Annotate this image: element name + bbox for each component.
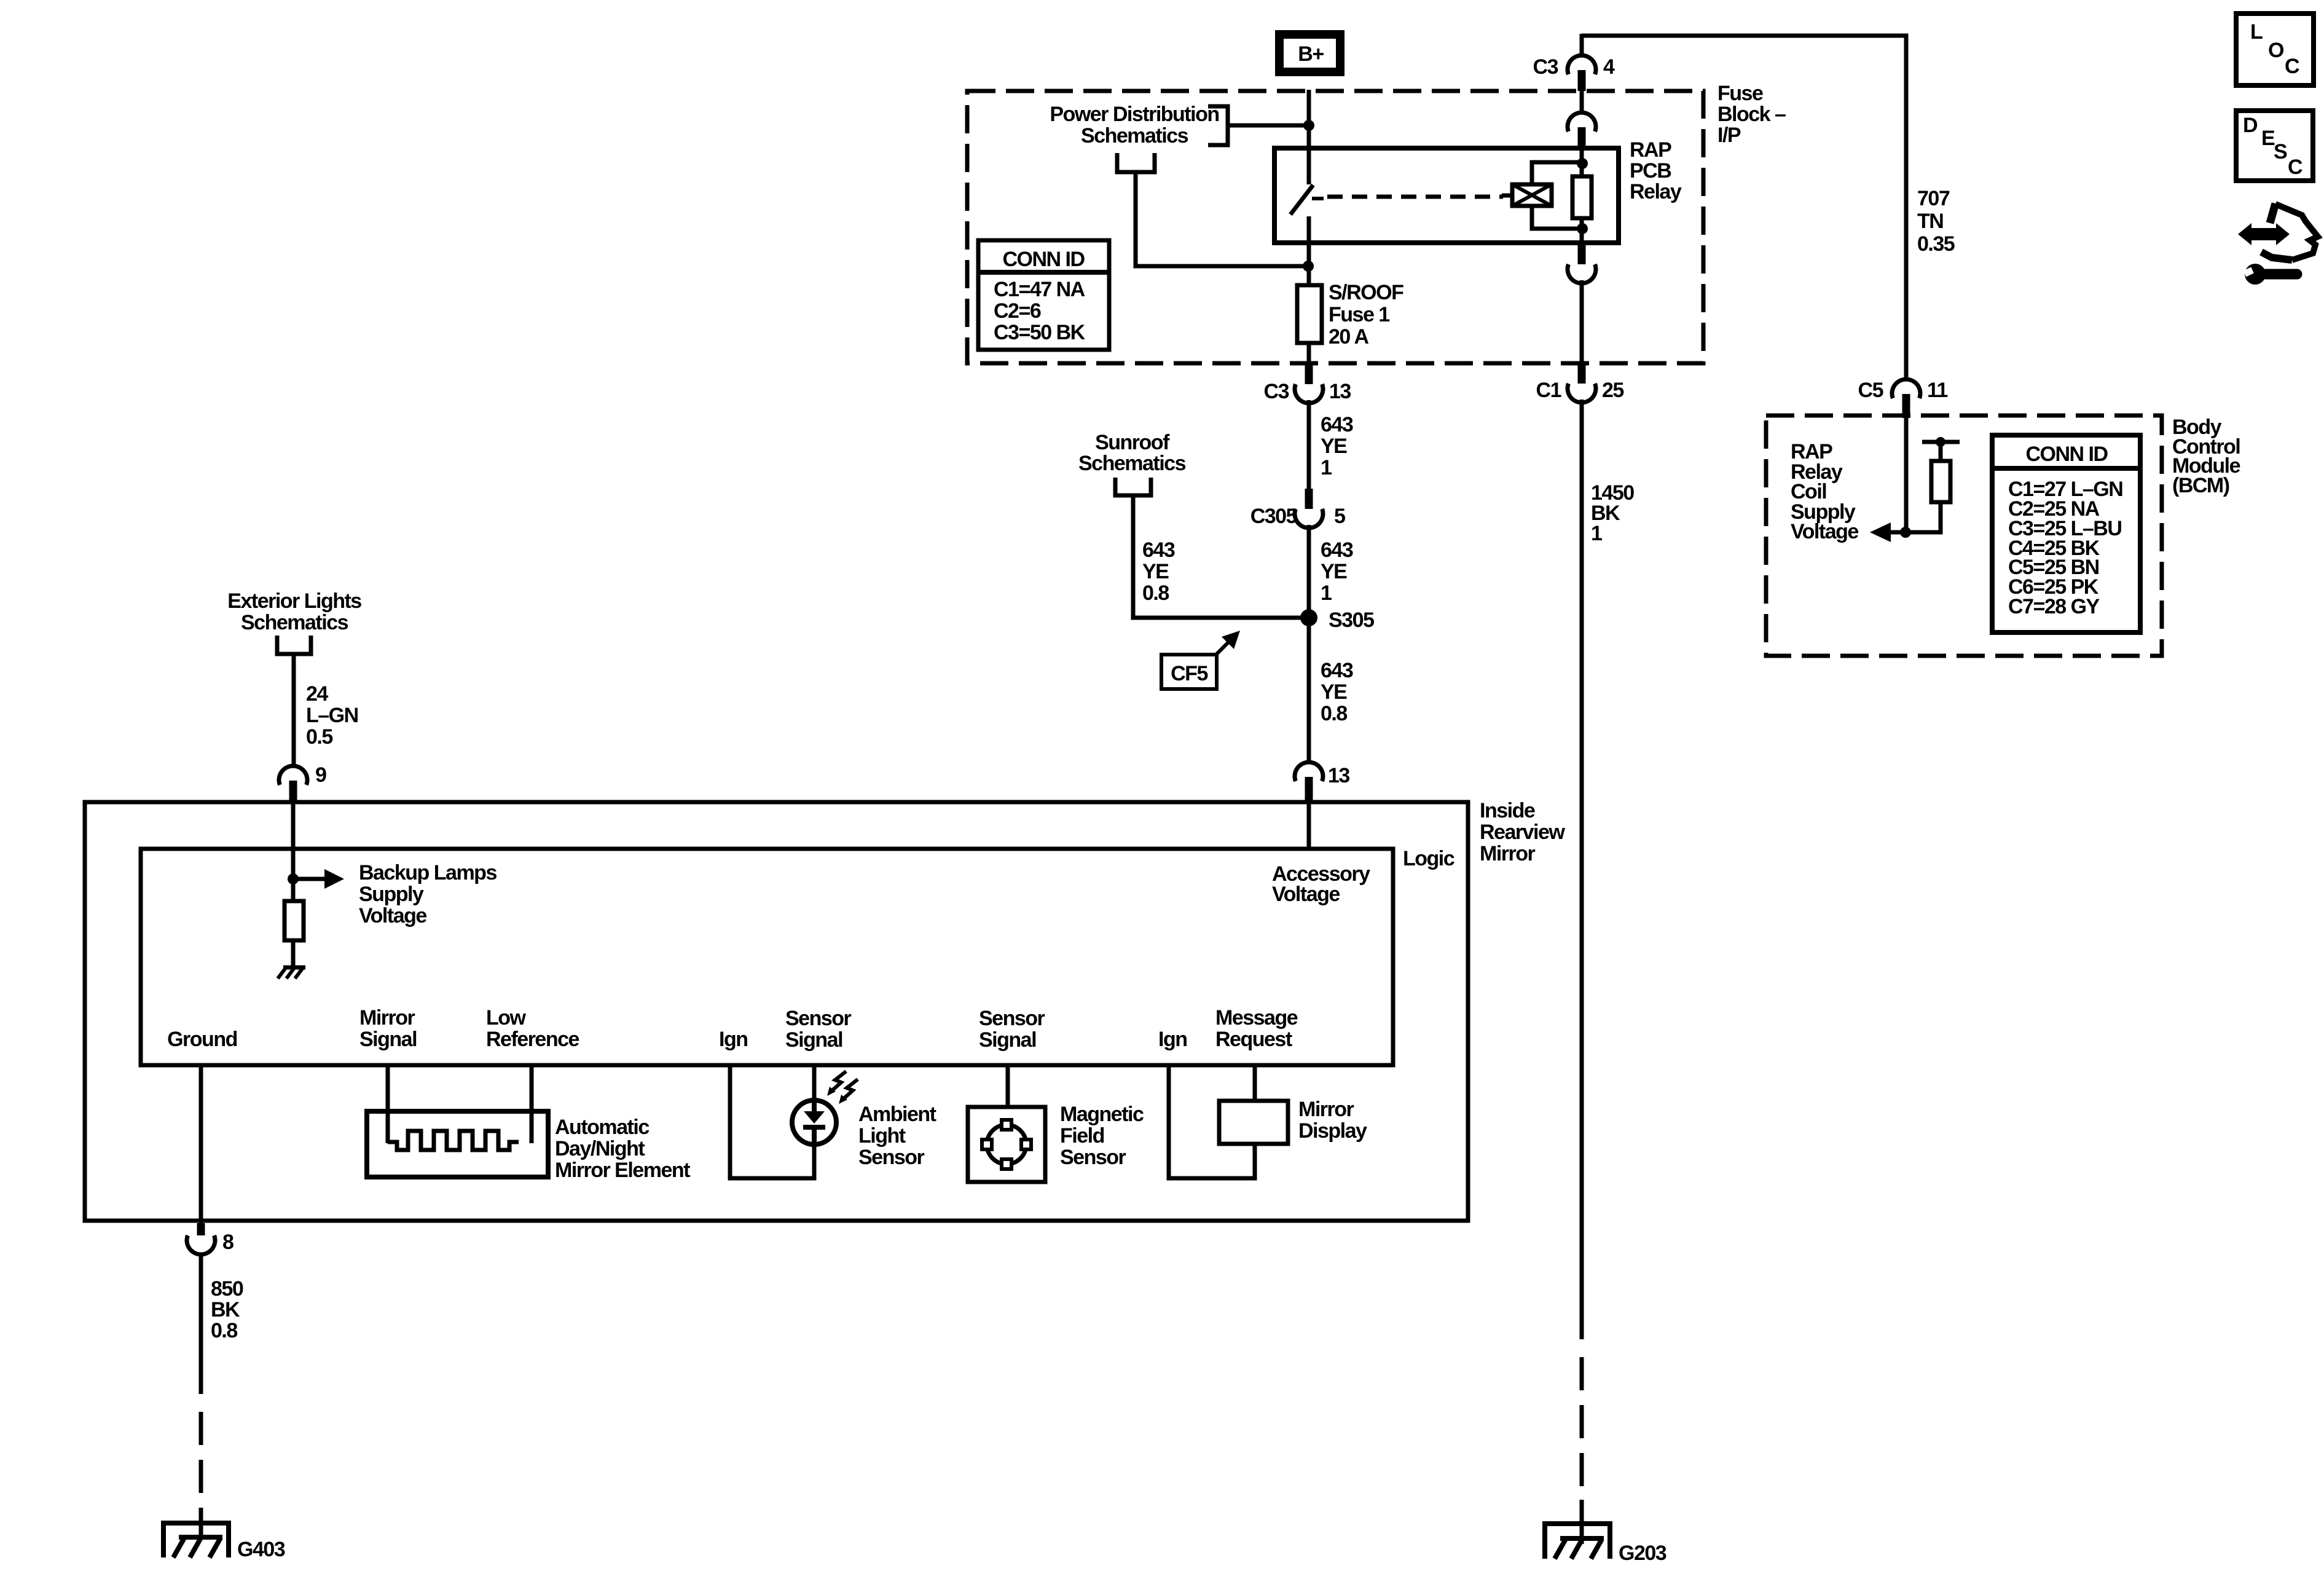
svg-text:0.35: 0.35 <box>1917 232 1955 256</box>
label RAP PCB Relay <box>1630 138 1682 203</box>
connector pin 9 <box>279 766 307 802</box>
svg-text:Mirror Element: Mirror Element <box>555 1159 690 1182</box>
wire relay right branch <box>1580 148 1584 243</box>
label Mirror Signal <box>359 1006 417 1051</box>
svg-text:Supply: Supply <box>359 883 424 906</box>
svg-text:20 A: 20 A <box>1329 325 1369 348</box>
connector C5 pin 11 <box>1892 379 1920 418</box>
resistor in BCM <box>1931 461 1950 502</box>
label Magnetic Field Sensor <box>1060 1103 1144 1169</box>
wire message request pin <box>1253 1065 1257 1101</box>
wire 1450 BK 1 <box>1580 400 1584 1544</box>
wire B+ to relay switch <box>1307 90 1311 149</box>
label 643 YE 1 middle <box>1321 538 1353 605</box>
svg-text:Request: Request <box>1215 1028 1292 1051</box>
svg-text:Automatic: Automatic <box>555 1116 649 1139</box>
svg-text:Field: Field <box>1060 1124 1104 1148</box>
svg-text:0.5: 0.5 <box>306 725 332 749</box>
svg-text:C305: C305 <box>1250 505 1297 528</box>
svg-text:C3: C3 <box>1533 55 1558 79</box>
svg-text:YE: YE <box>1321 435 1347 458</box>
wire mirror signal pin <box>386 1065 390 1143</box>
svg-text:CF5: CF5 <box>1171 662 1207 685</box>
junction dot above fuse <box>1303 261 1314 272</box>
svg-text:0.8: 0.8 <box>211 1319 237 1342</box>
DESC reference box <box>2236 111 2313 181</box>
svg-text:Magnetic: Magnetic <box>1060 1103 1144 1126</box>
label 850 BK 0.8 <box>211 1277 243 1342</box>
label 1450 BK 1 <box>1591 481 1634 545</box>
wire Ign 1 loop <box>730 1065 814 1178</box>
svg-text:Sensor: Sensor <box>785 1007 852 1030</box>
svg-text:Voltage: Voltage <box>1272 883 1340 906</box>
wire sensor signal 1 pin <box>812 1065 817 1101</box>
svg-text:C3=50 BK: C3=50 BK <box>994 321 1086 344</box>
ground G403 <box>161 1523 231 1557</box>
relay control dashed line <box>1327 195 1503 199</box>
svg-text:CONN ID: CONN ID <box>1002 248 1085 271</box>
RAP PCB relay box <box>1274 148 1619 243</box>
svg-text:Inside: Inside <box>1480 799 1535 822</box>
label S/ROOF Fuse 1 20 A <box>1329 281 1403 348</box>
svg-text:Schematics: Schematics <box>1078 452 1186 475</box>
svg-text:C7=28 GY: C7=28 GY <box>2008 595 2100 618</box>
label 643 YE 0.8 lower <box>1321 659 1353 725</box>
wire Ign 2 loop <box>1169 1065 1255 1178</box>
connector pin 8 <box>187 1223 215 1254</box>
svg-text:Sunroof: Sunroof <box>1095 431 1170 454</box>
svg-text:Message: Message <box>1215 1006 1298 1030</box>
fuse block I/P dashed box <box>967 91 1703 363</box>
svg-text:C: C <box>2285 55 2299 78</box>
label Sensor Signal 2 <box>979 1007 1045 1052</box>
mirror display <box>1219 1101 1288 1144</box>
svg-text:643: 643 <box>1321 413 1353 436</box>
svg-text:0.8: 0.8 <box>1142 581 1169 605</box>
label Backup Lamps Supply Voltage <box>359 861 497 927</box>
wire sensor signal 2 pin <box>1006 1065 1010 1107</box>
label C1 25 <box>1536 379 1624 402</box>
svg-text:CONN ID: CONN ID <box>2025 443 2108 466</box>
wire BCM pin 11 internal <box>1904 418 1909 532</box>
CONN ID table fuse block <box>978 240 1109 350</box>
wire coil top loop <box>1532 162 1580 186</box>
automatic day/night mirror element <box>367 1111 548 1177</box>
svg-text:643: 643 <box>1321 538 1353 562</box>
ground G203 <box>1542 1500 1612 1559</box>
wire resistor to supply node <box>1874 502 1941 532</box>
wire top feed to BCM <box>1582 36 1906 380</box>
svg-text:RAP: RAP <box>1630 138 1671 162</box>
svg-text:(BCM): (BCM) <box>2172 474 2229 497</box>
CONN ID table BCM <box>1992 435 2140 632</box>
svg-text:Voltage: Voltage <box>1791 520 1858 543</box>
svg-text:643: 643 <box>1321 659 1353 682</box>
CF5 callout box with arrow <box>1161 631 1240 689</box>
magnetic field sensor <box>968 1107 1045 1182</box>
svg-text:Ground: Ground <box>167 1028 237 1051</box>
service icon double arrow <box>2238 223 2290 245</box>
svg-text:11: 11 <box>1927 379 1948 402</box>
svg-text:S: S <box>2274 140 2287 163</box>
connector relay lower pin <box>1568 243 1596 365</box>
off-page pointer bracket (power distribution) <box>1117 153 1155 172</box>
light arrows into sensor <box>827 1071 858 1104</box>
svg-text:YE: YE <box>1321 680 1347 704</box>
svg-text:707: 707 <box>1917 187 1950 210</box>
relay coil <box>1502 184 1552 206</box>
svg-text:G203: G203 <box>1619 1542 1666 1565</box>
off-page pointer bracket (exterior lights) <box>277 636 311 654</box>
svg-text:Ign: Ign <box>1158 1028 1187 1051</box>
off-page pointer bracket (sunroof) <box>1115 478 1151 495</box>
svg-text:5: 5 <box>1334 505 1345 528</box>
label 707 TN 0.35 <box>1917 187 1955 256</box>
svg-text:Signal: Signal <box>359 1028 417 1051</box>
svg-text:Sensor: Sensor <box>979 1007 1045 1030</box>
resistor in relay <box>1572 176 1592 218</box>
svg-text:Mirror: Mirror <box>1480 842 1536 865</box>
svg-text:643: 643 <box>1142 538 1175 562</box>
svg-text:BK: BK <box>211 1298 240 1321</box>
wire pointer stem to fuse node <box>1136 174 1306 266</box>
svg-text:S305: S305 <box>1329 608 1374 632</box>
svg-text:0.8: 0.8 <box>1321 702 1347 725</box>
inside rearview mirror box <box>85 802 1468 1221</box>
connector C3 pin 4 <box>1568 34 1596 91</box>
connector C1 pin 25 <box>1568 365 1596 403</box>
svg-text:PCB: PCB <box>1630 159 1671 183</box>
svg-text:13: 13 <box>1328 764 1349 787</box>
wire bracket to B+ wire <box>1228 124 1309 128</box>
connector pin 13 inside mirror <box>1295 762 1323 802</box>
svg-text:Light: Light <box>858 1124 906 1148</box>
label Sunroof Schematics <box>1078 431 1186 475</box>
svg-text:B+: B+ <box>1298 42 1324 66</box>
wire backup lamps feed <box>291 802 296 879</box>
connector C3 pin 13 <box>1295 363 1323 403</box>
svg-text:YE: YE <box>1321 560 1347 583</box>
svg-text:Mirror: Mirror <box>359 1006 415 1030</box>
svg-text:Mirror: Mirror <box>1298 1098 1354 1121</box>
junction dot backup lamps <box>288 873 299 884</box>
svg-text:9: 9 <box>315 763 326 787</box>
label C3 13 <box>1264 380 1351 403</box>
svg-text:1: 1 <box>1321 581 1332 605</box>
wire low reference pin <box>530 1065 534 1143</box>
label Sensor Signal 1 <box>785 1007 852 1052</box>
svg-text:13: 13 <box>1329 380 1351 403</box>
svg-text:C2=6: C2=6 <box>994 299 1041 323</box>
wire 643 YE 0.8 lower <box>1307 618 1311 762</box>
svg-text:24: 24 <box>306 682 328 706</box>
svg-text:Reference: Reference <box>486 1028 579 1051</box>
junction dot on B+ wire <box>1303 120 1314 131</box>
service icon wrench <box>2244 264 2297 285</box>
svg-text:25: 25 <box>1602 379 1623 402</box>
wire 643 YE 1 middle <box>1307 525 1311 618</box>
svg-text:C: C <box>2288 156 2302 179</box>
junction dot coil top <box>1577 158 1588 169</box>
resistor backup lamps <box>285 879 304 940</box>
bracket for Power Distribution tag <box>1208 106 1228 145</box>
label Inside Rearview Mirror <box>1480 799 1565 865</box>
wire coil bottom loop <box>1532 205 1580 229</box>
svg-text:Sensor: Sensor <box>1060 1146 1126 1169</box>
LOC reference box <box>2236 14 2314 85</box>
svg-text:4: 4 <box>1603 55 1615 79</box>
wire 643 YE 1 upper <box>1307 400 1311 489</box>
label Body Control Module (BCM) <box>2172 415 2240 497</box>
arrow RAP relay coil supply voltage <box>1870 522 1891 542</box>
label C5 11 <box>1858 379 1948 402</box>
wire 24 L-GN 0.5 <box>292 656 296 766</box>
svg-text:I/P: I/P <box>1717 124 1741 147</box>
arrow backup lamps <box>293 869 344 889</box>
svg-text:Ign: Ign <box>719 1028 747 1051</box>
svg-text:Ambient: Ambient <box>858 1103 936 1126</box>
svg-text:L–GN: L–GN <box>306 704 358 727</box>
S/ROOF fuse 1 <box>1297 285 1322 343</box>
B+ power symbol <box>1279 34 1340 72</box>
svg-text:850: 850 <box>211 1277 243 1301</box>
label C305 5 <box>1250 505 1345 528</box>
svg-text:Exterior Lights: Exterior Lights <box>227 589 361 613</box>
label Accessory Voltage <box>1272 862 1370 906</box>
svg-text:Schematics: Schematics <box>241 611 348 634</box>
svg-text:Fuse 1: Fuse 1 <box>1329 303 1389 326</box>
svg-text:C3: C3 <box>1264 380 1289 403</box>
svg-text:Backup Lamps: Backup Lamps <box>359 861 497 884</box>
svg-text:E: E <box>2261 127 2275 150</box>
label 24 L-GN 0.5 <box>306 682 358 749</box>
svg-text:C1: C1 <box>1536 379 1561 402</box>
label Ambient Light Sensor <box>858 1103 936 1169</box>
svg-text:Display: Display <box>1298 1119 1367 1143</box>
wire ground pin <box>199 1065 203 1223</box>
svg-text:Relay: Relay <box>1630 180 1682 203</box>
svg-text:1: 1 <box>1591 522 1602 545</box>
logic box <box>141 849 1393 1065</box>
label 643 YE 1 upper <box>1321 413 1353 479</box>
svg-text:Fuse: Fuse <box>1717 82 1763 105</box>
svg-text:Logic: Logic <box>1403 847 1454 870</box>
svg-text:Schematics: Schematics <box>1081 124 1188 148</box>
label Low Reference <box>486 1006 579 1051</box>
label RAP Relay Coil Supply Voltage <box>1791 440 1858 543</box>
svg-text:Day/Night: Day/Night <box>555 1137 645 1160</box>
connector relay upper pin <box>1568 91 1596 149</box>
relay switch contact <box>1290 148 1324 285</box>
svg-text:S/ROOF: S/ROOF <box>1329 281 1403 304</box>
label C3 4 <box>1533 55 1615 79</box>
svg-text:1: 1 <box>1321 456 1332 479</box>
wire fuse to border <box>1307 343 1311 363</box>
svg-text:Voltage: Voltage <box>359 904 426 927</box>
wire 850 BK 0.8 <box>199 1253 203 1540</box>
svg-text:C5: C5 <box>1858 379 1883 402</box>
svg-text:Power Distribution: Power Distribution <box>1050 103 1219 126</box>
BCM dashed box <box>1766 415 2162 656</box>
wire sunroof branch <box>1133 497 1309 618</box>
svg-text:Low: Low <box>486 1006 527 1030</box>
label Mirror Display <box>1298 1098 1367 1143</box>
ambient light sensor photodiode <box>792 1100 836 1144</box>
svg-text:C1=47 NA: C1=47 NA <box>994 278 1085 301</box>
svg-text:Sensor: Sensor <box>858 1146 925 1169</box>
svg-text:D: D <box>2243 114 2258 137</box>
svg-text:G403: G403 <box>237 1538 285 1561</box>
wire accessory voltage pin <box>1307 802 1311 849</box>
label Fuse Block - I/P <box>1717 82 1786 147</box>
label 643 YE 0.8 sunroof <box>1142 538 1175 605</box>
splice S305 <box>1300 609 1317 626</box>
label Automatic Day/Night Mirror Element <box>555 1116 690 1182</box>
svg-text:TN: TN <box>1917 210 1943 233</box>
svg-text:O: O <box>2268 39 2284 62</box>
BCM internal supply rail <box>1922 437 1960 461</box>
label Exterior Lights Schematics <box>227 589 361 634</box>
junction dot BCM <box>1900 527 1911 538</box>
service icon mirror outline <box>2261 203 2318 260</box>
svg-text:Signal: Signal <box>785 1028 842 1052</box>
svg-text:8: 8 <box>222 1231 234 1254</box>
svg-text:L: L <box>2250 20 2263 44</box>
svg-text:Block –: Block – <box>1717 103 1786 126</box>
svg-text:Signal: Signal <box>979 1028 1036 1052</box>
label Power Distribution Schematics <box>1050 103 1219 148</box>
internal ground backup lamps <box>278 940 305 979</box>
connector C305 pin 5 <box>1295 489 1323 528</box>
svg-text:YE: YE <box>1142 560 1169 583</box>
label Message Request <box>1215 1006 1298 1051</box>
junction dot coil bottom <box>1577 223 1588 234</box>
svg-text:Rearview: Rearview <box>1480 821 1565 844</box>
